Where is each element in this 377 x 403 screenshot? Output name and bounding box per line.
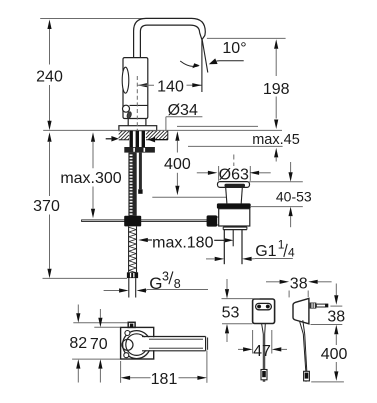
svg-text:10°: 10° xyxy=(222,40,246,57)
svg-text:140: 140 xyxy=(157,78,184,95)
svg-text:38: 38 xyxy=(327,309,345,326)
svg-text:53: 53 xyxy=(222,304,240,321)
svg-text:8: 8 xyxy=(174,277,181,291)
svg-text:370: 370 xyxy=(33,198,60,215)
svg-text:70: 70 xyxy=(90,336,108,353)
svg-text:240: 240 xyxy=(36,69,63,86)
svg-text:82: 82 xyxy=(69,335,87,352)
svg-text:G1: G1 xyxy=(255,243,276,260)
svg-text:max.300: max.300 xyxy=(60,170,121,187)
svg-text:4: 4 xyxy=(288,246,295,260)
svg-text:Ø63: Ø63 xyxy=(219,166,249,183)
svg-text:181: 181 xyxy=(151,371,178,388)
svg-text:47: 47 xyxy=(253,343,271,360)
svg-text:G: G xyxy=(149,274,162,293)
svg-text:40-53: 40-53 xyxy=(276,188,312,204)
svg-text:400: 400 xyxy=(321,346,348,363)
svg-text:400: 400 xyxy=(164,156,191,173)
svg-text:max.180: max.180 xyxy=(152,234,213,251)
svg-text:38: 38 xyxy=(290,275,308,292)
svg-text:max.45: max.45 xyxy=(252,132,300,148)
svg-text:1: 1 xyxy=(278,237,285,251)
svg-text:198: 198 xyxy=(263,81,290,98)
svg-text:3: 3 xyxy=(162,270,169,284)
